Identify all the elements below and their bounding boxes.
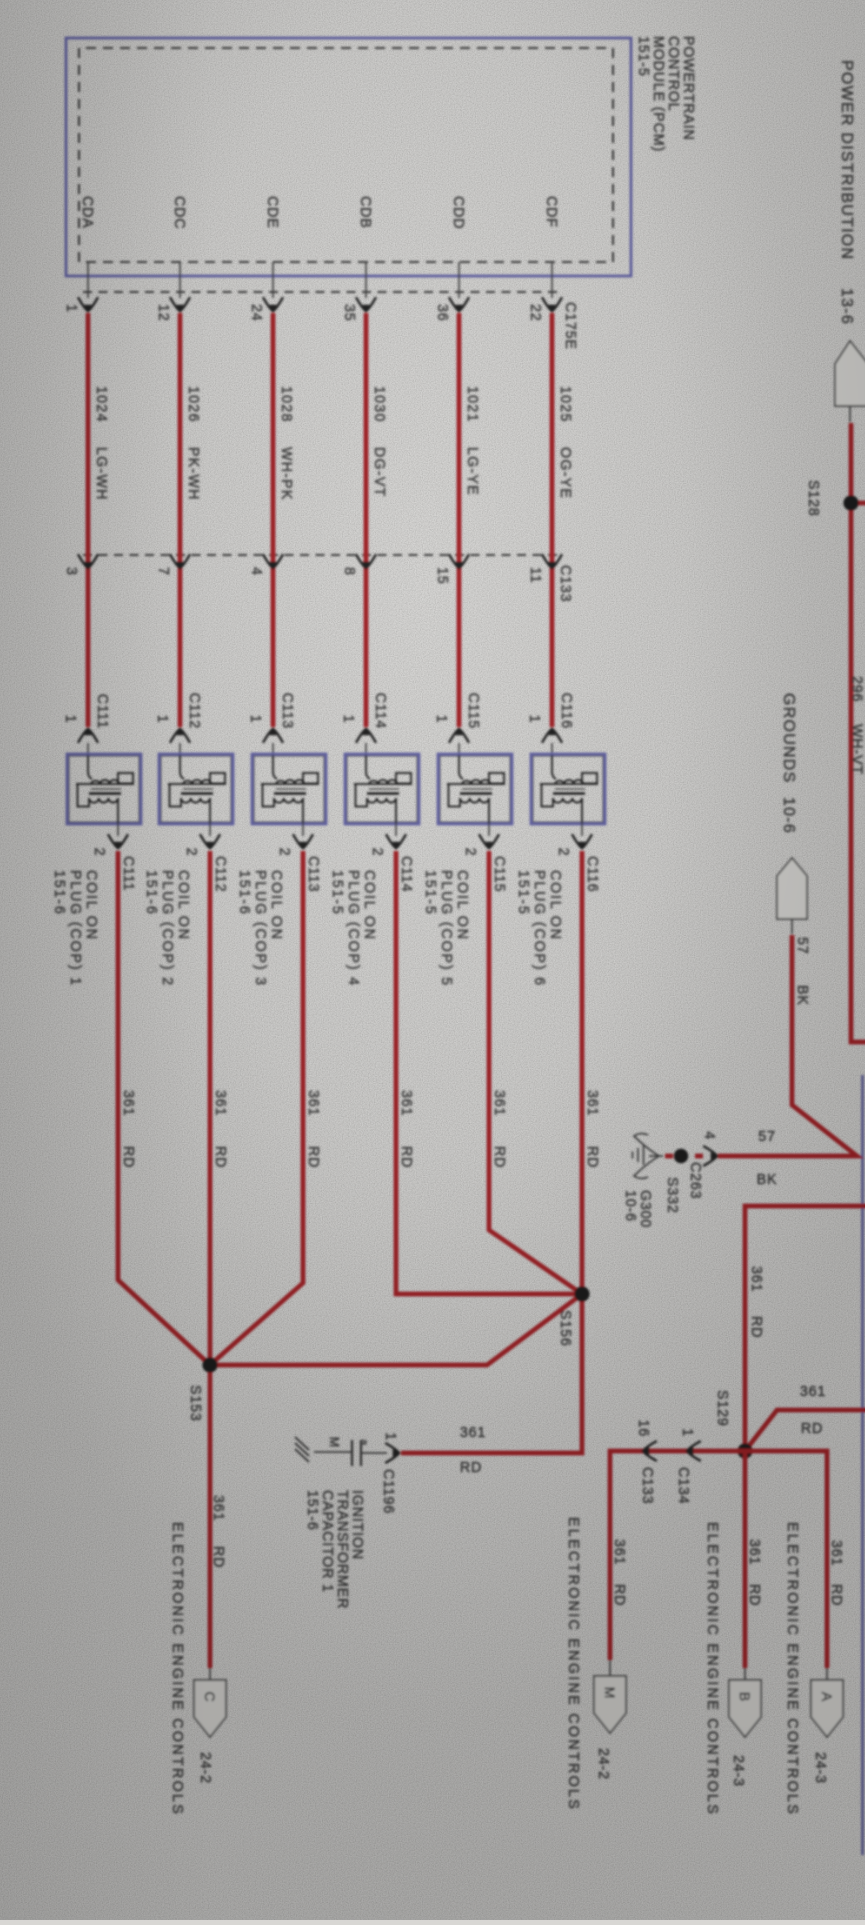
- PCM module box (blue): [66, 38, 631, 276]
- pin 3 at C133: [63, 554, 98, 576]
- coil connector C116 pin 2: [555, 823, 600, 892]
- ignition coil C115 box (COP 5): [438, 754, 512, 824]
- wire 361 RD from coil C112: [212, 1090, 228, 1168]
- wire 361 RD from coil C111: [120, 1090, 136, 1168]
- pin 22 at C175E: [527, 297, 562, 321]
- coil connector C113 pin 1: [247, 693, 295, 755]
- label COIL ON PLUG (COP) 6 151-5: [515, 870, 563, 987]
- pin 4 at C133: [248, 554, 283, 576]
- connector arrow B 24-3: [729, 1680, 761, 1787]
- pin 12 at C175E: [155, 297, 190, 321]
- ignition coil C113 windings: [261, 755, 319, 823]
- wire 57 BK horizontal: [718, 935, 857, 1156]
- pin 11 at C133: [527, 554, 562, 583]
- coil connector C112 pin 1: [154, 693, 202, 755]
- wire stub to connector A: [826, 1668, 828, 1681]
- wire 1028 WH-PK (PCM CDE to coil C113): [273, 313, 294, 727]
- wire stub to connector M: [609, 1660, 611, 1677]
- capacitor connector C1196 pin 1: [380, 1432, 400, 1514]
- coil connector C116 pin 1: [526, 693, 574, 755]
- wire tie S156 to S153: [210, 1294, 582, 1365]
- wire 361 RD feed from top to S129: [745, 1206, 865, 1451]
- label 361 RD to connector C: [210, 1495, 226, 1568]
- PCM module box (dashed): [79, 48, 613, 262]
- wire 361 RD branch B: [745, 1451, 762, 1668]
- PCM pin CDB stub: [357, 196, 373, 298]
- pin 7 at C133: [155, 554, 190, 576]
- wire 1026 PK-WH (PCM CDC to coil C112): [180, 313, 201, 727]
- connector arrow M 24-2: [594, 1676, 626, 1780]
- connector C175E dashed line: [81, 291, 557, 293]
- wire 1021 LG-YE (PCM CDD to coil C115): [459, 313, 480, 727]
- wire 1030 DG-VT (PCM CDB to coil C114): [366, 313, 387, 727]
- coil connector C113 pin 2: [276, 823, 321, 892]
- label COIL ON PLUG (COP) 1 151-6: [51, 870, 99, 987]
- wire coil 5 output diagonal to S156: [489, 851, 582, 1294]
- connector C133 dashed line (PCM harness side): [81, 554, 557, 556]
- power feed arrow (from power distribution): [835, 341, 865, 422]
- wire dashed to ground G300: [660, 1154, 703, 1159]
- ignition coil C112 box (COP 2): [159, 754, 233, 824]
- label POWERTRAIN CONTROL MODULE (PCM) 151-5: [635, 36, 696, 152]
- wire 1024 LG-WH (PCM CDA to coil C111): [88, 313, 109, 727]
- ignition coil C114 box (COP 4): [345, 754, 419, 824]
- wire stub to connector B: [744, 1668, 746, 1681]
- label COIL ON PLUG (COP) 2 151-6: [143, 870, 191, 987]
- ground G300 10-6: [622, 1134, 663, 1229]
- wire coil 2 output through S153 to connector C: [208, 851, 213, 1668]
- pin 36 at C175E: [434, 297, 469, 321]
- splice S156: [557, 1286, 590, 1346]
- pin 15 at C133: [434, 554, 469, 584]
- wire 361 RD from coil C113: [305, 1090, 321, 1168]
- connector C133 pin 16: [635, 1419, 657, 1504]
- ignition coil C116 box (COP 6): [531, 754, 605, 824]
- wire 361 RD from coil C116: [584, 1090, 600, 1168]
- ignition coil C113 box (COP 3): [252, 754, 326, 824]
- pin 24 at C175E: [248, 297, 283, 321]
- wire coil 1 output diagonal to S153: [118, 851, 210, 1365]
- ignition coil C115 windings: [447, 755, 505, 823]
- connector C134 pin 1: [675, 1428, 701, 1504]
- splice S129: [714, 1390, 753, 1459]
- wire coil 6 output to S156 and capacitor corner: [401, 851, 582, 1453]
- pin 35 at C175E: [341, 297, 376, 321]
- label IGNITION TRANSFORMER CAPACITOR 1 151-6: [304, 1490, 365, 1609]
- label COIL ON PLUG (COP) 4 151-5: [329, 870, 377, 987]
- wire 361 RD from coil C115: [491, 1090, 507, 1168]
- coil connector C114 pin 2: [369, 823, 414, 892]
- title POWER DISTRIBUTION 13-6: [838, 60, 855, 325]
- splice S153: [187, 1357, 218, 1421]
- PCM pin CDE stub: [264, 196, 280, 298]
- PCM pin CDD stub: [450, 196, 466, 298]
- vertical wire labels 361 RD (capacitor branch): [460, 1425, 486, 1476]
- wire 1025 OG-YE (PCM CDF to coil C116): [552, 313, 573, 727]
- wire coil 3 output diagonal to S153: [210, 851, 303, 1365]
- label COIL ON PLUG (COP) 3 151-6: [236, 870, 284, 987]
- connector arrow A 24-3: [811, 1680, 843, 1784]
- ignition coil C114 windings: [354, 755, 412, 823]
- pin 8 at C133: [341, 554, 376, 576]
- frame edge line (adjacent page border): [861, 1075, 864, 1855]
- wire 361 RD from coil C114: [398, 1090, 414, 1168]
- connector arrow C 24-2: [194, 1680, 226, 1784]
- ignition coil C116 windings: [540, 755, 598, 823]
- coil connector C111 pin 1: [62, 694, 110, 755]
- coil connector C111 pin 2: [91, 823, 136, 891]
- PCM pin CDF stub: [543, 196, 559, 298]
- splice S128: [805, 480, 865, 517]
- coil connector C115 pin 2: [462, 823, 507, 892]
- wire 296 WH-VT / 361 RD along top: [849, 423, 865, 1042]
- connector C263 pin 4: [687, 1131, 718, 1199]
- ignition coil C112 windings: [168, 755, 226, 823]
- vertical wire labels 57 BK: [757, 1129, 778, 1188]
- wire 361 RD diagonal branch to top: [745, 1410, 865, 1451]
- grounds arrow: [777, 858, 807, 934]
- capacitor C1196 (ignition transformer capacitor 1): [295, 1437, 387, 1466]
- splice S332: [664, 1149, 688, 1214]
- wire 361 RD branch A: [745, 1451, 844, 1668]
- coil connector C114 pin 1: [340, 693, 388, 755]
- pin 1 at C175E: [63, 297, 98, 313]
- ignition coil C111 windings: [76, 755, 134, 823]
- PCM pin CDC stub: [171, 196, 187, 298]
- wire 361 RD branch M: [610, 1451, 745, 1660]
- wire stub to connector C: [209, 1668, 211, 1681]
- PCM pin CDA stub: [79, 196, 95, 298]
- ignition coil C111 box (COP 1): [67, 754, 141, 824]
- title GROUNDS 10-6: [780, 693, 797, 834]
- wire coil 4 output up to S156: [396, 851, 582, 1294]
- coil connector C115 pin 1: [433, 693, 481, 755]
- label COIL ON PLUG (COP) 5 151-5: [422, 870, 470, 987]
- coil connector C112 pin 2: [183, 823, 228, 892]
- vertical wire labels 361 RD (top branch): [800, 1384, 826, 1437]
